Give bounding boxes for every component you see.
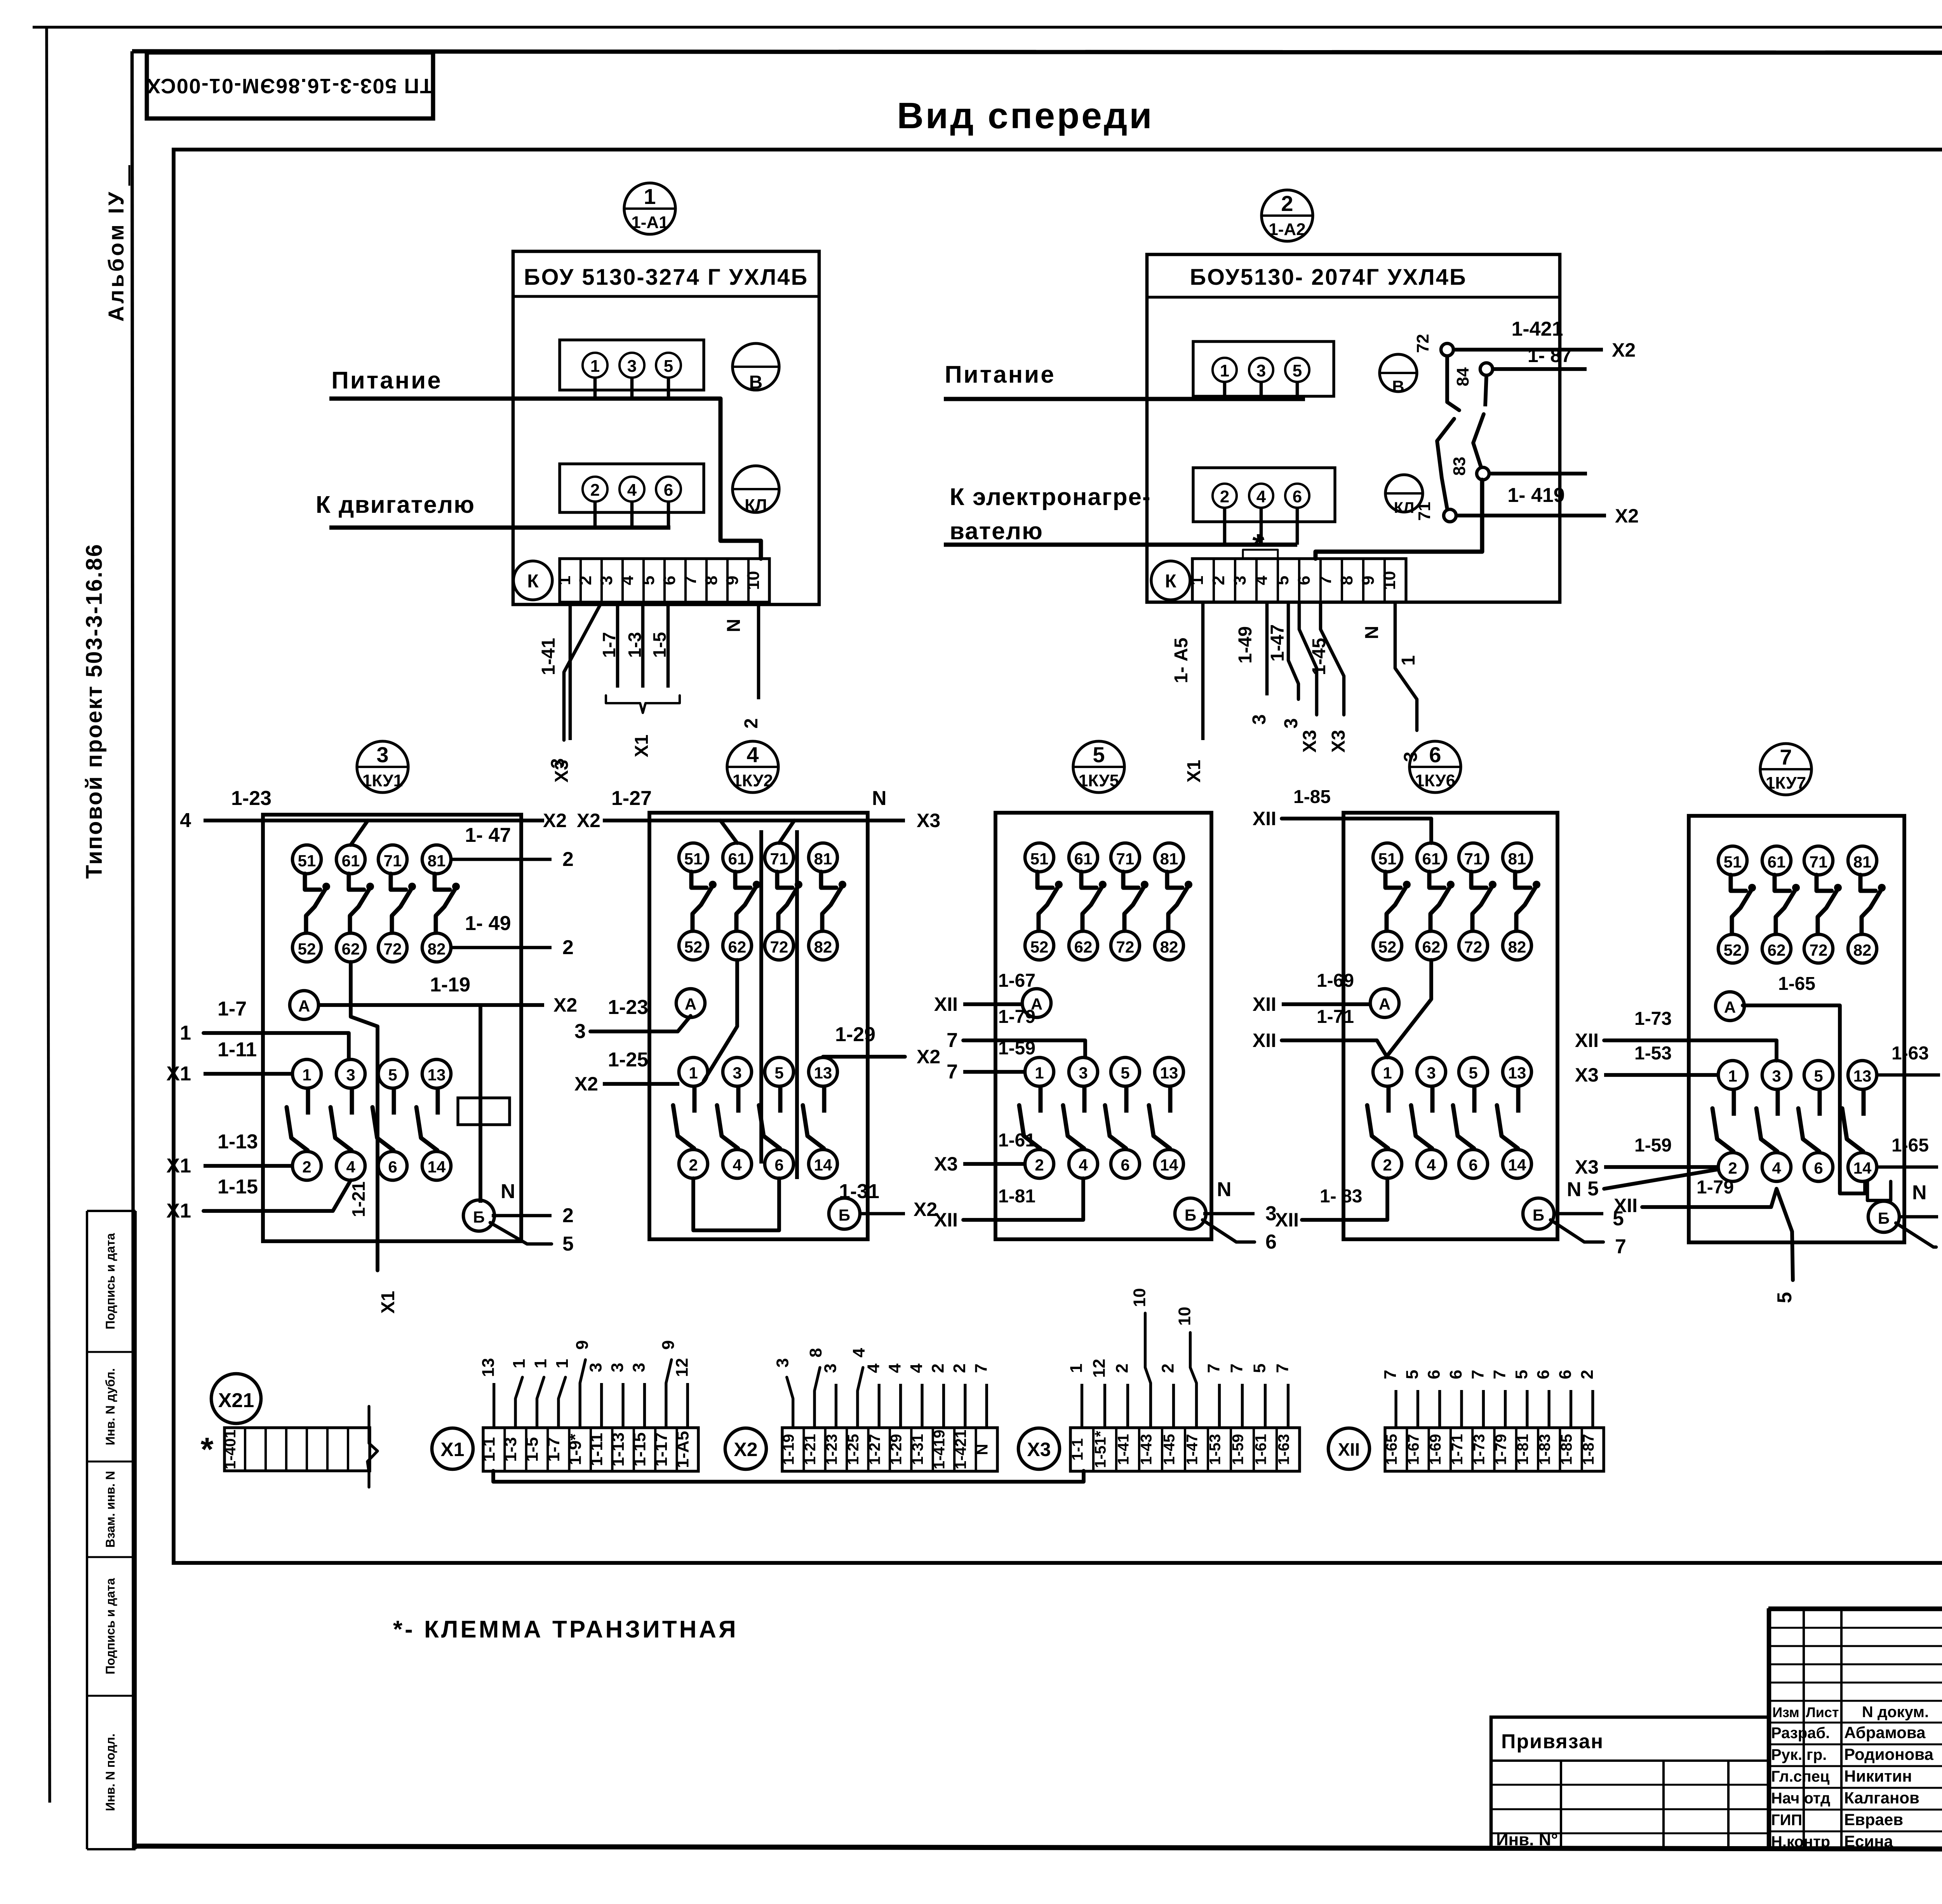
svg-text:14: 14 — [814, 1156, 832, 1174]
svg-text:Инв. N дубл.: Инв. N дубл. — [103, 1368, 117, 1445]
svg-text:Есина: Есина — [1844, 1832, 1893, 1850]
svg-text:Питание: Питание — [945, 361, 1056, 388]
svg-text:1-5: 1-5 — [523, 1437, 542, 1462]
wire 1-87 to X2 — [1493, 345, 1587, 369]
svg-text:1-23: 1-23 — [823, 1434, 840, 1465]
svg-text:4: 4 — [1079, 1156, 1088, 1174]
relay K1 coil rectangle — [458, 1098, 510, 1125]
svg-text:1-1: 1-1 — [480, 1437, 499, 1462]
svg-text:4: 4 — [627, 481, 637, 500]
sheet frame left — [132, 51, 134, 1848]
svg-text:X3: X3 — [1575, 1156, 1599, 1178]
svg-text:13: 13 — [479, 1358, 498, 1377]
svg-text:52: 52 — [684, 938, 703, 956]
svg-text:Никитин: Никитин — [1844, 1767, 1912, 1785]
svg-text:61: 61 — [1422, 850, 1441, 868]
wires from coil B of K6 to 5 and 7 — [1550, 1178, 1626, 1258]
svg-text:13: 13 — [814, 1064, 832, 1082]
wire 1-81 from XII to pin 4 of K5 — [934, 1178, 1083, 1231]
svg-text:1-41: 1-41 — [1115, 1434, 1132, 1465]
contactor 2 power terminals box pins 1 3 5 — [1193, 341, 1334, 399]
svg-text:А: А — [685, 995, 696, 1013]
svg-text:1-3: 1-3 — [501, 1437, 520, 1462]
svg-text:Инв. N подл.: Инв. N подл. — [103, 1733, 117, 1811]
svg-text:3: 3 — [1079, 1064, 1088, 1082]
svg-text:10: 10 — [1380, 571, 1399, 590]
svg-text:1: 1 — [302, 1066, 311, 1084]
wire power bus 1 — [329, 399, 761, 559]
svg-text:13: 13 — [428, 1066, 446, 1084]
wires above strip XII — [1381, 1370, 1597, 1428]
svg-text:72: 72 — [1413, 334, 1432, 353]
svg-text:N: N — [1217, 1178, 1232, 1201]
svg-text:1-29: 1-29 — [888, 1434, 905, 1465]
svg-text:X2: X2 — [1612, 339, 1636, 361]
terminal block circle X3 — [1018, 1428, 1060, 1469]
svg-text:1-53: 1-53 — [1634, 1043, 1672, 1064]
svg-text:N: N — [501, 1180, 515, 1203]
sheet frame bottom — [134, 1846, 1942, 1850]
svg-text:84: 84 — [1453, 367, 1472, 386]
svg-text:X1: X1 — [440, 1439, 464, 1460]
svg-text:3: 3 — [1281, 718, 1302, 729]
wires above strip X2 — [773, 1348, 991, 1428]
page outer border top — [33, 26, 1942, 28]
svg-text:1-71: 1-71 — [1449, 1434, 1466, 1465]
svg-text:1-47: 1-47 — [1184, 1434, 1201, 1465]
svg-text:1: 1 — [510, 1359, 529, 1368]
svg-text:Изм: Изм — [1772, 1704, 1799, 1720]
svg-text:1-85: 1-85 — [1293, 787, 1331, 807]
contactor U1 body БОУ5130-3274Г УХЛ4Б — [513, 251, 819, 604]
svg-text:14: 14 — [1853, 1159, 1872, 1177]
relay K1 body with contacts and pins — [263, 815, 521, 1241]
svg-text:ГИП: ГИП — [1771, 1812, 1802, 1829]
svg-text:1-А2: 1-А2 — [1269, 220, 1305, 239]
svg-text:В: В — [749, 372, 763, 393]
contactor 2 bottom wire 1-45 to X3 b — [1309, 602, 1349, 753]
wire 1-13 from X1 to pin 2 — [166, 1131, 292, 1177]
svg-text:1-69: 1-69 — [1317, 970, 1354, 991]
wire 1-71 from XII to pin 1 of K6 — [1253, 1007, 1387, 1057]
svg-text:1-59: 1-59 — [1230, 1434, 1247, 1465]
svg-text:14: 14 — [1160, 1156, 1178, 1174]
svg-text:62: 62 — [342, 940, 360, 958]
svg-text:1: 1 — [1220, 361, 1229, 380]
relay index circle 4/1KU2 — [727, 741, 778, 793]
svg-text:6: 6 — [660, 576, 679, 585]
svg-text:Типовой проект 503-3-16.86: Типовой проект 503-3-16.86 — [82, 543, 107, 879]
svg-text:1-45: 1-45 — [1309, 638, 1329, 675]
wire heater bus 2 — [944, 543, 1297, 547]
svg-text:Нач отд: Нач отд — [1771, 1790, 1830, 1807]
svg-text:10: 10 — [1130, 1288, 1149, 1307]
svg-text:82: 82 — [1853, 941, 1872, 959]
wire 1-23 from 4 across relay K1 top to X2 — [180, 787, 567, 845]
svg-text:1: 1 — [590, 357, 600, 376]
wire 1-47 from contact 81 to 2 — [451, 824, 574, 871]
svg-text:X1: X1 — [378, 1291, 398, 1314]
svg-text:83: 83 — [1450, 457, 1469, 476]
svg-text:2: 2 — [562, 1204, 574, 1227]
svg-text:N: N — [1362, 626, 1382, 639]
aux switch blades — [1437, 356, 1486, 509]
svg-text:7: 7 — [947, 1029, 958, 1052]
svg-text:X2: X2 — [543, 810, 567, 831]
svg-text:2: 2 — [302, 1158, 311, 1176]
svg-text:В: В — [1392, 377, 1404, 396]
contactor 1 bottom wire N to 2 — [724, 602, 762, 728]
contactor 1 bottom wire to 3 — [548, 602, 602, 768]
svg-text:52: 52 — [298, 940, 316, 958]
svg-text:81: 81 — [428, 852, 446, 870]
svg-text:1-79: 1-79 — [1493, 1434, 1510, 1465]
svg-text:1: 1 — [1067, 1364, 1086, 1373]
svg-text:1-63: 1-63 — [1276, 1434, 1293, 1465]
svg-text:13: 13 — [1853, 1067, 1872, 1085]
contactor index circle 2/1-A2 — [1262, 190, 1313, 241]
svg-text:1-81: 1-81 — [1514, 1434, 1531, 1465]
svg-text:5: 5 — [1773, 1292, 1796, 1303]
svg-text:6: 6 — [1265, 1231, 1277, 1253]
svg-text:1КУ2: 1КУ2 — [733, 771, 773, 790]
svg-text:1-63: 1-63 — [1892, 1043, 1929, 1064]
svg-text:N: N — [974, 1444, 991, 1455]
svg-text:62: 62 — [1422, 938, 1441, 956]
wire 1-85 from XII into relay K6 top — [1253, 787, 1431, 843]
svg-text:6: 6 — [1121, 1156, 1129, 1174]
contactor 1 terminal strip K 1..10 — [555, 559, 769, 602]
svg-text:8: 8 — [806, 1348, 825, 1357]
svg-text:6: 6 — [774, 1156, 783, 1174]
svg-text:1-15: 1-15 — [218, 1176, 258, 1198]
bottom link wire pins 2-6 of K2 — [693, 1178, 779, 1230]
svg-text:1-401: 1-401 — [222, 1430, 239, 1469]
svg-text:71: 71 — [770, 850, 788, 868]
contactor 1 bottom wires 1-7 1-3 1-5 to X1 — [599, 602, 680, 757]
svg-text:5: 5 — [774, 1064, 783, 1082]
svg-text:2: 2 — [576, 576, 595, 585]
svg-text:XII: XII — [1253, 993, 1276, 1015]
contactor 1 bottom wire 1-41 to X3 — [538, 602, 572, 782]
svg-text:4: 4 — [886, 1363, 905, 1373]
svg-text:72: 72 — [1464, 938, 1483, 956]
svg-text:1-17: 1-17 — [652, 1432, 671, 1467]
aux switch node 71 — [1415, 502, 1456, 522]
svg-text:9: 9 — [1359, 576, 1378, 585]
svg-text:2: 2 — [1209, 576, 1228, 585]
svg-text:1-53: 1-53 — [1207, 1434, 1224, 1465]
svg-text:5: 5 — [1273, 576, 1292, 585]
relay K5 body with contacts and pins — [995, 813, 1211, 1239]
svg-text:4: 4 — [733, 1156, 742, 1174]
svg-text:X3: X3 — [1300, 730, 1320, 753]
svg-text:1-9*: 1-9* — [566, 1434, 585, 1465]
svg-text:1- 47: 1- 47 — [465, 824, 511, 847]
svg-text:Абрамова: Абрамова — [1844, 1723, 1926, 1742]
svg-text:1-23: 1-23 — [608, 996, 648, 1019]
svg-text:1-73: 1-73 — [1634, 1009, 1672, 1029]
wire 1-23 from 3 to coil A of K2 — [574, 996, 691, 1043]
svg-text:7: 7 — [1381, 1370, 1400, 1379]
transit star mark X21 — [200, 1431, 213, 1468]
svg-text:1-31: 1-31 — [909, 1434, 926, 1465]
svg-text:7: 7 — [971, 1364, 990, 1373]
svg-text:82: 82 — [1508, 938, 1526, 956]
svg-text:2: 2 — [741, 718, 762, 729]
svg-text:КЛ: КЛ — [1394, 499, 1414, 516]
svg-text:3: 3 — [1772, 1067, 1781, 1085]
svg-text:6: 6 — [1446, 1370, 1465, 1379]
svg-text:1-67: 1-67 — [998, 970, 1035, 991]
label Pitanie (power) 2 — [945, 361, 1056, 388]
svg-text:3: 3 — [733, 1064, 741, 1082]
svg-text:51: 51 — [1030, 850, 1049, 868]
svg-text:3: 3 — [627, 357, 637, 376]
svg-text:1КУ6: 1КУ6 — [1415, 771, 1455, 790]
svg-text:2: 2 — [929, 1364, 948, 1373]
indicator lamp KL of contactor 2 — [1385, 475, 1423, 516]
svg-text:1-25: 1-25 — [608, 1049, 648, 1071]
svg-text:XII: XII — [934, 993, 958, 1015]
svg-text:1-15: 1-15 — [630, 1432, 649, 1467]
svg-text:2: 2 — [950, 1364, 969, 1373]
svg-text:8: 8 — [702, 576, 721, 585]
svg-text:ТП 503-3-16.86ЭМ-01-00СХ: ТП 503-3-16.86ЭМ-01-00СХ — [146, 74, 433, 98]
svg-text:81: 81 — [1853, 853, 1872, 871]
svg-text:5: 5 — [388, 1066, 397, 1084]
svg-text:К электронагре-: К электронагре- — [950, 484, 1151, 510]
svg-text:4: 4 — [864, 1363, 883, 1373]
wire 1-59 from 7 to pin 1 of K5 — [947, 1038, 1035, 1083]
svg-text:9: 9 — [659, 1340, 678, 1350]
wire 1-15 from X1 to pin 4 — [166, 1176, 351, 1222]
svg-text:72: 72 — [1116, 938, 1135, 956]
svg-text:XII: XII — [1575, 1030, 1599, 1051]
svg-text:БОУ 5130-3274 Г УХЛ4Б: БОУ 5130-3274 Г УХЛ4Б — [524, 265, 808, 290]
wire from contact 62 of K6 to pin 1 — [1387, 960, 1431, 1056]
svg-text:1: 1 — [1383, 1064, 1392, 1082]
wire 1-19 from coil A to X2 — [317, 974, 577, 1016]
svg-text:1-31: 1-31 — [839, 1180, 879, 1203]
svg-text:Родионова: Родионова — [1844, 1745, 1933, 1763]
svg-text:6: 6 — [1556, 1370, 1575, 1379]
svg-text:1-13: 1-13 — [609, 1432, 628, 1467]
svg-text:1-85: 1-85 — [1558, 1434, 1575, 1465]
svg-text:1-29: 1-29 — [835, 1023, 875, 1046]
svg-text:1-7: 1-7 — [218, 998, 247, 1020]
wire 1-65 from coil A of K7 down to pin 14 — [1743, 974, 1865, 1193]
svg-text:2: 2 — [1220, 487, 1229, 506]
wire from contact 62 down through relay K1 — [348, 962, 398, 1313]
svg-text:*: * — [200, 1431, 213, 1468]
svg-text:9: 9 — [723, 576, 742, 585]
svg-text:8: 8 — [1337, 576, 1356, 585]
wire 1-29 from pin 13 of K2 to X2 — [823, 1023, 940, 1068]
svg-text:X1: X1 — [1184, 760, 1204, 783]
svg-text:Калганов: Калганов — [1844, 1789, 1919, 1807]
svg-text:13: 13 — [1160, 1064, 1178, 1082]
svg-text:1-5: 1-5 — [649, 632, 670, 658]
svg-text:62: 62 — [1768, 941, 1786, 959]
label Pitanie (power) 1 — [331, 367, 442, 394]
svg-text:*: * — [1252, 528, 1265, 562]
svg-text:61: 61 — [1074, 850, 1093, 868]
svg-text:1-27: 1-27 — [866, 1434, 883, 1465]
svg-text:1-47: 1-47 — [1267, 624, 1288, 662]
svg-text:5: 5 — [1293, 361, 1302, 380]
svg-text:3: 3 — [586, 1363, 606, 1372]
svg-text:3: 3 — [548, 758, 568, 769]
svg-text:52: 52 — [1378, 938, 1397, 956]
svg-text:3: 3 — [630, 1363, 649, 1372]
svg-text:7: 7 — [1316, 576, 1335, 585]
svg-text:7: 7 — [1490, 1370, 1509, 1379]
wire from pin 4 of K7 down to 5 — [1773, 1189, 1796, 1303]
svg-text:1-87: 1-87 — [1580, 1434, 1597, 1465]
svg-text:1-59: 1-59 — [1634, 1135, 1672, 1156]
svg-text:X1: X1 — [166, 1063, 191, 1085]
svg-text:1-41: 1-41 — [538, 638, 559, 675]
attachment table Privyazan — [1491, 1717, 1769, 1849]
drawing area box — [174, 150, 1942, 1563]
stamp box TP503-3-16.86 EM-01-00SX (rotated 180) — [146, 52, 433, 118]
svg-text:5: 5 — [1814, 1067, 1823, 1085]
svg-text:81: 81 — [1160, 850, 1178, 868]
svg-text:1-21: 1-21 — [348, 1181, 369, 1217]
svg-text:72: 72 — [770, 938, 788, 956]
aux switch node 84 — [1453, 363, 1493, 386]
svg-text:4: 4 — [747, 742, 759, 767]
svg-text:Б: Б — [473, 1208, 485, 1226]
svg-text:1- 49: 1- 49 — [465, 912, 511, 935]
wire 1-79 from 7 to pin 3 of K5 — [947, 1007, 1085, 1057]
relay index circle 6/1KU6 — [1410, 741, 1461, 793]
svg-text:X1: X1 — [166, 1155, 191, 1177]
revision table — [1770, 1610, 1942, 1850]
svg-text:1-421: 1-421 — [1512, 318, 1563, 340]
svg-text:3: 3 — [574, 1020, 586, 1043]
svg-text:Б: Б — [1878, 1209, 1890, 1227]
svg-text:1-73: 1-73 — [1470, 1434, 1488, 1465]
svg-text:72: 72 — [384, 940, 402, 958]
svg-text:6: 6 — [1814, 1159, 1823, 1177]
svg-text:1: 1 — [1035, 1064, 1044, 1082]
relay K7 body with contacts and pins — [1689, 816, 1904, 1242]
svg-text:XII: XII — [1253, 808, 1276, 829]
svg-text:N: N — [724, 619, 744, 632]
svg-text:1- 87: 1- 87 — [1528, 345, 1572, 366]
svg-text:1-67: 1-67 — [1405, 1434, 1422, 1465]
svg-text:1: 1 — [555, 576, 574, 585]
contactor 2 motor terminals box pins 2 4 6 — [1193, 468, 1335, 545]
svg-text:62: 62 — [1074, 938, 1093, 956]
contactor 2 bottom wire to X3 a — [1299, 602, 1320, 753]
vertical text Tipovoy proekt 503-3-16.86 — [82, 543, 107, 879]
svg-text:4: 4 — [907, 1363, 926, 1373]
wire 1-31 from coil B of K2 to X2 — [839, 1180, 937, 1220]
terminal block circle X1 — [432, 1428, 473, 1469]
ground bus under X1 X2 — [493, 1471, 1084, 1482]
svg-text:6: 6 — [1425, 1370, 1444, 1379]
svg-text:Привязан: Привязан — [1501, 1730, 1604, 1753]
svg-text:2: 2 — [1578, 1370, 1597, 1379]
svg-text:2: 2 — [1383, 1156, 1392, 1174]
svg-text:5: 5 — [1512, 1370, 1531, 1379]
svg-text:2: 2 — [562, 848, 574, 871]
svg-text:1-79: 1-79 — [998, 1007, 1035, 1027]
svg-text:5: 5 — [1093, 742, 1105, 767]
svg-text:X2: X2 — [577, 810, 600, 831]
svg-text:1-59: 1-59 — [998, 1038, 1035, 1059]
svg-text:6: 6 — [388, 1158, 397, 1176]
svg-text:51: 51 — [1378, 850, 1397, 868]
svg-text:71: 71 — [1116, 850, 1135, 868]
svg-text:Гл.спец: Гл.спец — [1771, 1768, 1830, 1785]
svg-text:1-71: 1-71 — [1317, 1007, 1354, 1027]
svg-text:2: 2 — [1281, 191, 1293, 216]
svg-text:2: 2 — [1035, 1156, 1044, 1174]
svg-text:7: 7 — [1780, 745, 1792, 769]
page outer border left — [47, 27, 50, 1803]
svg-text:Б: Б — [1533, 1206, 1544, 1224]
svg-text:КЛ: КЛ — [745, 496, 767, 515]
svg-text:12: 12 — [672, 1358, 691, 1377]
svg-text:4: 4 — [346, 1158, 355, 1176]
svg-text:3: 3 — [1427, 1064, 1436, 1082]
wire 1-69 from XII to coil A of K6 — [1253, 970, 1372, 1015]
aux switch node 72 — [1413, 334, 1453, 356]
svg-text:1КУ1: 1КУ1 — [362, 771, 403, 790]
svg-text:Питание: Питание — [331, 367, 442, 394]
svg-text:1-21: 1-21 — [802, 1434, 819, 1465]
label K elektronagre-vatelyu (to heater) — [950, 484, 1151, 545]
eskd column labels — [103, 1233, 117, 1811]
svg-text:4: 4 — [618, 575, 637, 585]
svg-text:X1: X1 — [632, 735, 652, 758]
svg-text:3: 3 — [608, 1363, 627, 1372]
svg-text:7: 7 — [1615, 1235, 1626, 1258]
wire 1-419 to X2 — [1456, 484, 1639, 527]
svg-text:1-7: 1-7 — [544, 1437, 563, 1462]
wires from coil B of K5 to 3 and 6 — [1202, 1178, 1277, 1253]
relay index circle 7/1KU7 — [1760, 744, 1811, 795]
svg-text:51: 51 — [684, 850, 703, 868]
wire 1-27 from X2 across relay K2 top to X3 N — [577, 787, 940, 843]
wires above strip X1 — [479, 1340, 692, 1428]
svg-text:7: 7 — [1468, 1370, 1487, 1379]
svg-text:71: 71 — [1810, 853, 1828, 871]
svg-text:61: 61 — [728, 850, 747, 868]
svg-text:1-1: 1-1 — [1069, 1438, 1086, 1461]
svg-text:А: А — [298, 997, 310, 1015]
transit terminal star mark on strip 2 — [1243, 528, 1278, 562]
svg-text:10: 10 — [744, 571, 763, 590]
svg-text:6: 6 — [1429, 742, 1441, 767]
wire 1-73 from XII to pin 3 of K7 — [1575, 1009, 1777, 1061]
svg-text:1-7: 1-7 — [599, 632, 619, 658]
svg-text:1КУ7: 1КУ7 — [1766, 773, 1806, 793]
svg-text:12: 12 — [1090, 1359, 1109, 1378]
svg-text:X1: X1 — [166, 1200, 191, 1222]
svg-text:3: 3 — [346, 1066, 355, 1084]
svg-text:1: 1 — [644, 184, 656, 209]
svg-text:X3: X3 — [1575, 1064, 1599, 1086]
svg-text:3: 3 — [773, 1358, 792, 1367]
wire 1-49 from contact 82 to 2 — [451, 912, 574, 959]
relay K2 body with contacts and pins — [649, 813, 868, 1239]
svg-text:N: N — [872, 787, 887, 810]
